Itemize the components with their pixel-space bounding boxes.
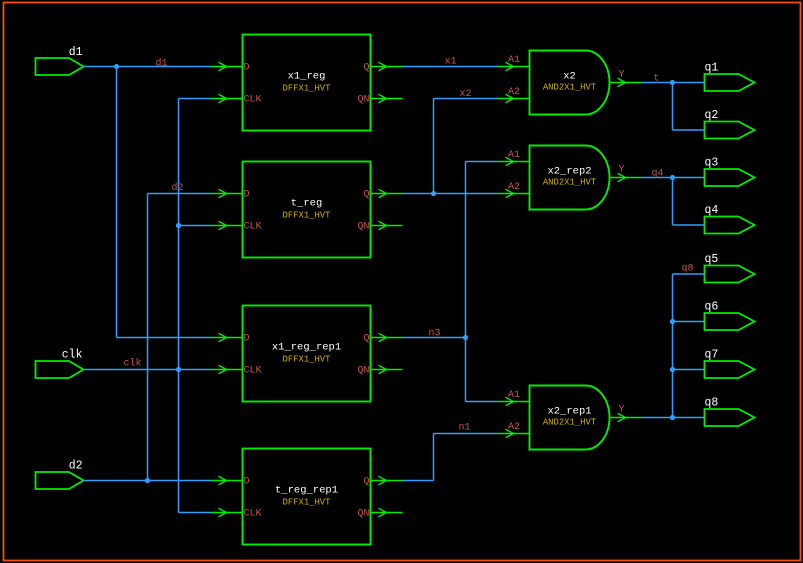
junction on net clk at port branch — [176, 367, 181, 372]
svg-text:AND2X1_HVT: AND2X1_HVT — [543, 83, 596, 93]
wire net x2: vertical branch — [433, 99, 435, 194]
wire net t: to port q2 — [673, 129, 705, 131]
input port d1 symbol — [36, 58, 84, 75]
svg-text:Y: Y — [619, 405, 625, 416]
junction on net d1 — [114, 64, 119, 69]
wire stub out of pin t_reg_rep1/Q — [371, 480, 403, 482]
junction on net clk at t_reg branch — [176, 223, 181, 228]
wire net t: vertical branch — [672, 83, 674, 131]
wire net d1: to x1_reg_rep1/D — [117, 337, 211, 339]
wire stub into pin t_reg/D — [211, 193, 243, 195]
junction on net t — [670, 80, 675, 85]
output port q8 symbol — [705, 409, 755, 426]
wire stub out of pin t_reg/Q — [371, 193, 403, 195]
svg-text:q1: q1 — [705, 62, 719, 75]
register t_reg_rep1 (DFFX1_HVT) body — [243, 449, 371, 545]
svg-text:x2: x2 — [460, 89, 472, 100]
svg-text:A2: A2 — [508, 87, 520, 98]
svg-text:A1: A1 — [508, 150, 520, 161]
wire net n1: t_reg_rep1/Q east — [403, 480, 434, 482]
svg-text:CLK: CLK — [244, 509, 262, 520]
output port q3 symbol — [705, 169, 755, 186]
input port d2 symbol — [36, 472, 84, 489]
AND gate x2_rep1 body — [530, 386, 610, 450]
svg-text:q8: q8 — [705, 397, 719, 410]
svg-text:QN: QN — [357, 509, 369, 520]
wire net n3: x1_reg_rep1/Q east — [403, 337, 466, 339]
wire net q8: to port q5 — [673, 273, 705, 275]
svg-text:Q: Q — [363, 190, 369, 201]
svg-text:D: D — [244, 63, 250, 74]
wire net q8: vertical trunk — [672, 274, 674, 418]
wire net n3: to x2_rep1/A1 — [466, 401, 498, 403]
svg-text:q3: q3 — [705, 157, 719, 170]
svg-text:x1_reg_rep1: x1_reg_rep1 — [272, 342, 341, 354]
wire stub out of pin x1_reg/Q — [371, 66, 403, 68]
wire net x2: to x2/A2 — [434, 98, 498, 100]
wire net q8: to port q7 — [673, 369, 705, 371]
wire stub out of pin x1_reg_rep1/QN — [371, 369, 403, 371]
wire net x2: t_reg/Q to x2_rep2/A2 — [403, 193, 498, 195]
svg-text:d2: d2 — [172, 182, 184, 194]
wire net q4: to port q4 — [673, 224, 705, 226]
wire net clk: vertical trunk — [178, 99, 180, 513]
wire stub out of pin t_reg/QN — [371, 225, 403, 227]
output port q5 symbol — [705, 266, 755, 283]
wire stub out of pin x2_rep1/Y — [610, 417, 642, 419]
junction on net q4 — [670, 175, 675, 180]
wire stub into pin x2/A1 — [498, 66, 530, 68]
wire stub into pin t_reg/CLK — [211, 225, 243, 227]
wire stub into pin x1_reg_rep1/D — [211, 337, 243, 339]
svg-text:AND2X1_HVT: AND2X1_HVT — [543, 178, 596, 188]
svg-text:DFFX1_HVT: DFFX1_HVT — [283, 498, 331, 508]
AND gate x2 body — [530, 51, 610, 115]
junction on net q8 at q6 — [670, 319, 675, 324]
wire stub into pin x1_reg/D — [211, 66, 243, 68]
junction on net n3 — [463, 335, 468, 340]
svg-text:Y: Y — [619, 70, 625, 81]
wire stub into pin t_reg_rep1/CLK — [211, 512, 243, 514]
svg-text:d1: d1 — [69, 46, 83, 59]
wire net d2: vertical branch — [147, 194, 149, 481]
svg-text:t_reg_rep1: t_reg_rep1 — [275, 485, 338, 497]
svg-text:Q: Q — [363, 63, 369, 74]
svg-text:q7: q7 — [705, 349, 719, 362]
svg-text:Q: Q — [363, 334, 369, 345]
svg-text:x1: x1 — [445, 57, 457, 68]
svg-text:A2: A2 — [508, 422, 520, 433]
register x1_reg_rep1 (DFFX1_HVT) body — [243, 306, 371, 402]
svg-text:D: D — [244, 190, 250, 201]
wire stub into pin t_reg_rep1/D — [211, 480, 243, 482]
svg-text:AND2X1_HVT: AND2X1_HVT — [543, 418, 596, 428]
wire net n1: to x2_rep1/A2 — [434, 433, 498, 435]
wire net d2: port d2 to t_reg_rep1/D — [84, 480, 211, 482]
wire stub into pin x2_rep2/A1 — [498, 161, 530, 163]
wire net q4: x2_rep2/Y to port q3 — [642, 177, 705, 179]
wire stub out of pin x1_reg_rep1/Q — [371, 337, 403, 339]
svg-text:CLK: CLK — [244, 222, 262, 233]
svg-text:q6: q6 — [705, 301, 719, 314]
wire stub into pin x2/A2 — [498, 98, 530, 100]
junction on net d2 — [145, 478, 150, 483]
svg-text:A2: A2 — [508, 182, 520, 193]
wire stub out of pin x1_reg/QN — [371, 98, 403, 100]
svg-text:CLK: CLK — [244, 95, 262, 106]
wire stub into pin x2_rep1/A1 — [498, 401, 530, 403]
svg-text:clk: clk — [62, 349, 83, 362]
svg-text:A1: A1 — [508, 390, 520, 401]
svg-text:A1: A1 — [508, 55, 520, 66]
wire net t: x2/Y to port q1 — [642, 82, 705, 84]
svg-text:DFFX1_HVT: DFFX1_HVT — [283, 211, 331, 221]
wire stub out of pin x2/Y — [610, 82, 642, 84]
junction on net x2 — [431, 191, 436, 196]
wire stub out of pin t_reg_rep1/QN — [371, 512, 403, 514]
wire stub into pin x1_reg/CLK — [211, 98, 243, 100]
wire net n3: to x2_rep2/A1 — [466, 161, 498, 163]
svg-text:QN: QN — [357, 366, 369, 377]
wire net x1: x1_reg/Q to x2/A1 — [403, 66, 498, 68]
junction on net q8 at q8 — [670, 415, 675, 420]
wire net clk: to t_reg_rep1/CLK — [179, 512, 211, 514]
svg-text:x2_rep1: x2_rep1 — [547, 406, 591, 418]
wire stub into pin x2_rep1/A2 — [498, 433, 530, 435]
wire net clk: to t_reg/CLK — [179, 225, 211, 227]
svg-text:DFFX1_HVT: DFFX1_HVT — [283, 84, 331, 94]
input port clk symbol — [36, 361, 84, 378]
svg-text:x2_rep2: x2_rep2 — [547, 166, 591, 178]
wire net n3: vertical trunk — [465, 162, 467, 402]
register x1_reg (DFFX1_HVT) body — [243, 35, 371, 131]
svg-text:q4: q4 — [652, 169, 664, 180]
wire stub into pin x1_reg_rep1/CLK — [211, 369, 243, 371]
wire net q8: x2_rep1/Y to port q8 — [642, 417, 705, 419]
AND gate x2_rep2 body — [530, 146, 610, 210]
wire net q8: to port q6 — [673, 321, 705, 323]
svg-text:t: t — [654, 74, 660, 85]
svg-text:D: D — [244, 334, 250, 345]
wire net d2: to t_reg/D — [148, 193, 211, 195]
svg-text:n3: n3 — [429, 329, 441, 340]
svg-text:n1: n1 — [459, 423, 471, 434]
output port q4 symbol — [705, 217, 755, 234]
output port q7 symbol — [705, 361, 755, 378]
svg-text:DFFX1_HVT: DFFX1_HVT — [283, 355, 331, 365]
output port q2 symbol — [705, 122, 755, 139]
svg-text:q4: q4 — [705, 204, 719, 217]
wire stub out of pin x2_rep2/Y — [610, 177, 642, 179]
svg-text:q2: q2 — [705, 109, 719, 122]
wire net q4: vertical branch — [672, 178, 674, 226]
svg-text:D: D — [244, 477, 250, 488]
svg-text:QN: QN — [357, 222, 369, 233]
svg-text:clk: clk — [124, 358, 142, 370]
register t_reg (DFFX1_HVT) body — [243, 162, 371, 258]
svg-text:t_reg: t_reg — [291, 198, 323, 210]
svg-text:d2: d2 — [69, 460, 83, 473]
svg-text:QN: QN — [357, 95, 369, 106]
svg-text:q8: q8 — [682, 264, 694, 275]
output port q6 symbol — [705, 313, 755, 330]
output port q1 symbol — [705, 74, 755, 91]
svg-text:Y: Y — [619, 165, 625, 176]
svg-text:Q: Q — [363, 477, 369, 488]
wire stub into pin x2_rep2/A2 — [498, 193, 530, 195]
svg-text:CLK: CLK — [244, 366, 262, 377]
svg-text:x1_reg: x1_reg — [288, 71, 326, 83]
junction on net q8 at q7 — [670, 367, 675, 372]
svg-text:q5: q5 — [705, 253, 719, 266]
wire net d1: vertical branch — [116, 67, 118, 338]
wire net d1: port d1 to x1_reg/D — [84, 66, 211, 68]
svg-text:d1: d1 — [156, 58, 168, 70]
wire net clk: to x1_reg/CLK — [179, 98, 211, 100]
wire net n1: vertical branch — [433, 434, 435, 481]
wire net clk: port clk to x1_reg_rep1/CLK — [84, 369, 211, 371]
svg-text:x2: x2 — [563, 71, 576, 83]
